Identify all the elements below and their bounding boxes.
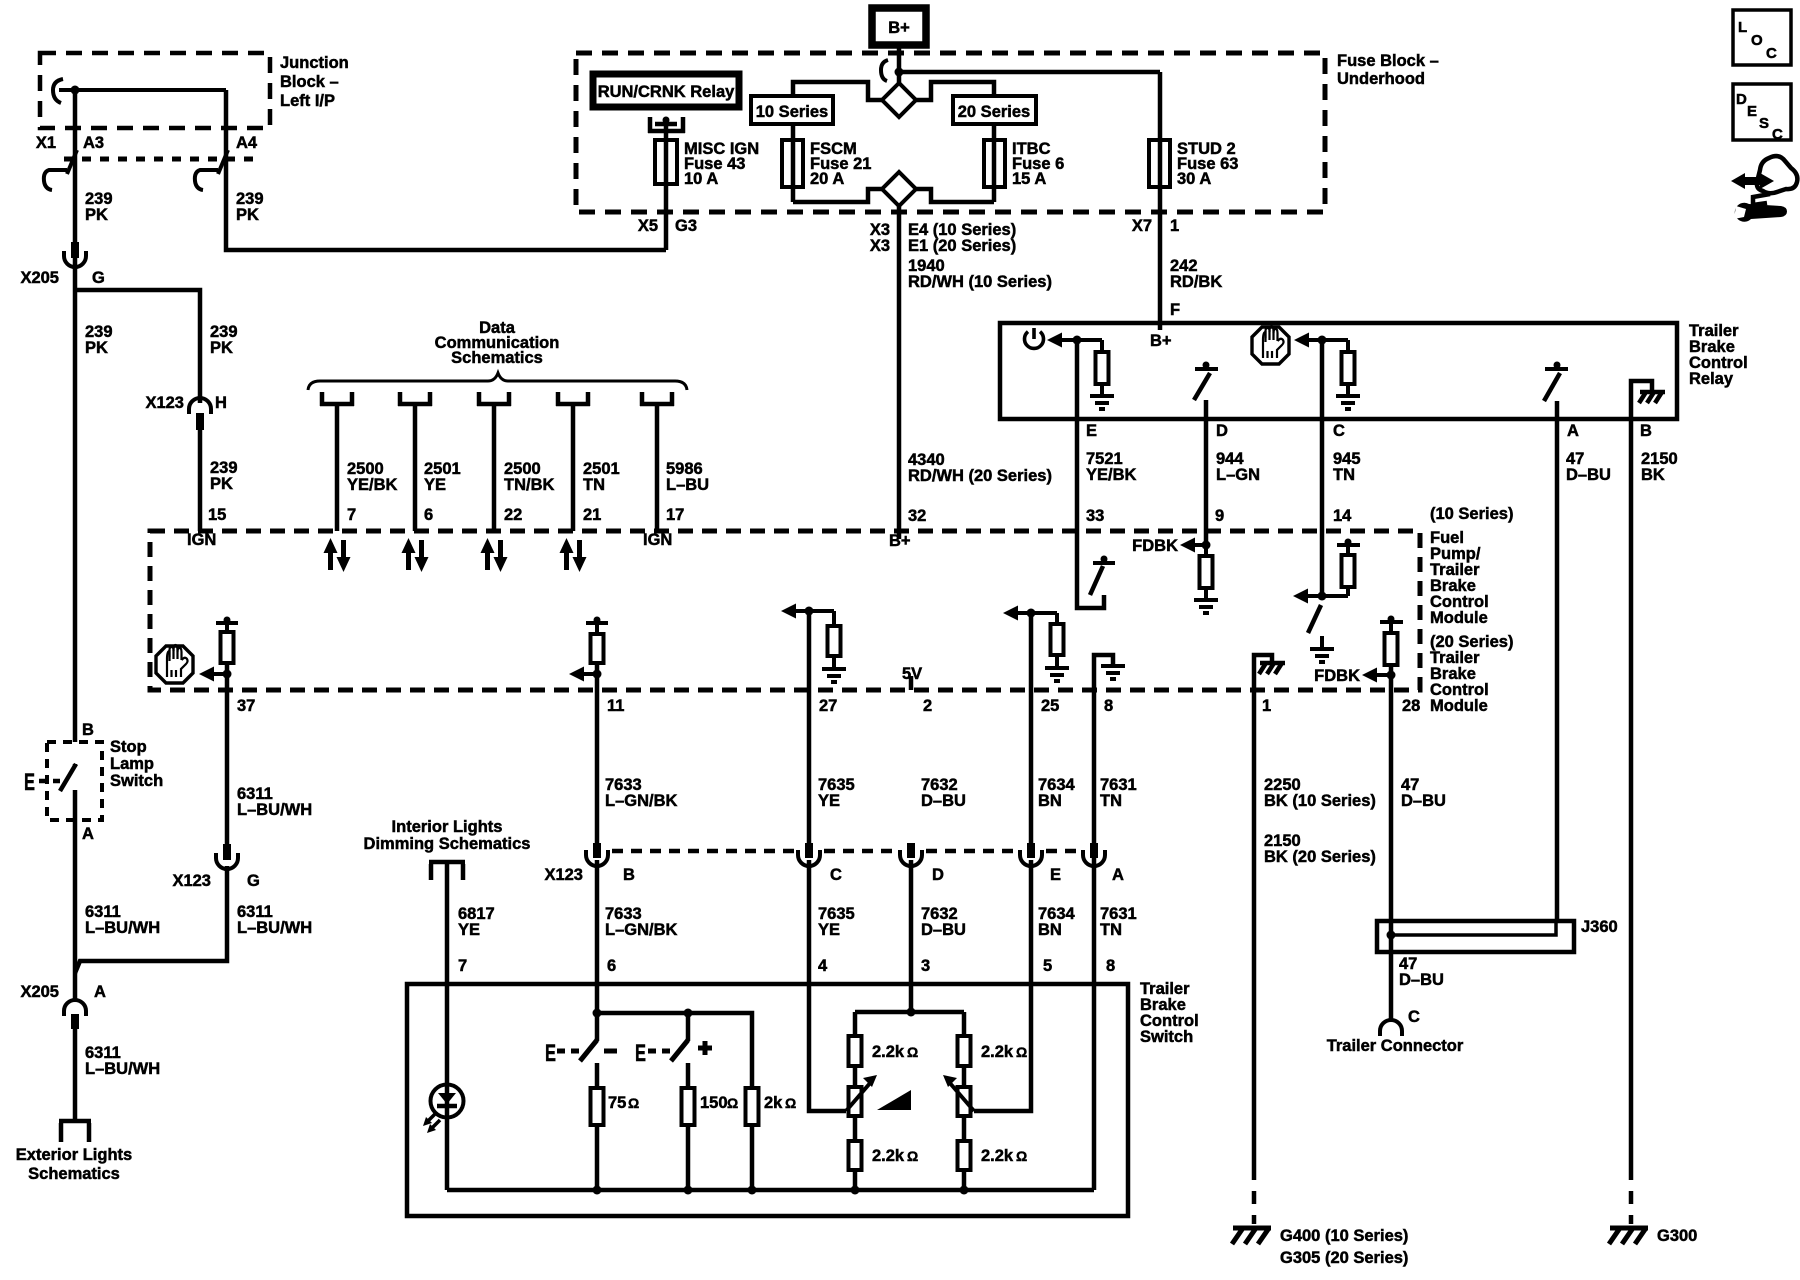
svg-text:C: C	[1766, 45, 1777, 62]
svg-text:PK: PK	[236, 206, 259, 224]
svg-text:Schematics: Schematics	[451, 349, 543, 367]
svg-text:D: D	[932, 866, 944, 884]
wire X123 H to module pin 15	[198, 430, 203, 531]
LOC box	[1733, 10, 1791, 65]
minus switch stub	[595, 1013, 600, 1041]
wire B+ to STUD2 fuse	[899, 70, 1160, 75]
connector X123 H pin	[196, 413, 204, 430]
svg-text:YE: YE	[818, 921, 840, 939]
arrow left (pin 11)	[569, 667, 584, 682]
wire X205 A down	[73, 1029, 78, 1121]
svg-text:10 Series: 10 Series	[756, 103, 828, 121]
connector X205 G pin	[71, 242, 79, 258]
svg-text:6: 6	[424, 506, 433, 524]
svg-text:FDBK: FDBK	[1314, 667, 1360, 685]
svg-text:B+: B+	[889, 532, 911, 550]
bottom bus	[447, 1188, 1094, 1193]
stop lamp switch blade	[60, 764, 76, 791]
svg-text:1: 1	[1262, 697, 1271, 715]
wire relay B down	[1629, 419, 1634, 1167]
node E dot	[1073, 336, 1082, 345]
svg-text:28: 28	[1402, 697, 1420, 715]
wire FSCM to lower diamond	[793, 189, 882, 202]
terminal hook below A3	[44, 150, 77, 190]
svg-text:E: E	[545, 1040, 556, 1067]
pin 1 internal chassis ground	[1254, 655, 1272, 690]
relay contact A	[1545, 367, 1568, 371]
svg-text:L: L	[1738, 19, 1747, 36]
right wiper arrow	[949, 1082, 974, 1111]
svg-text:2k: 2k	[764, 1094, 783, 1112]
LED circle	[431, 1085, 464, 1118]
wire relay C to module 14	[1320, 340, 1325, 596]
resistor to ground (E branch)	[1077, 338, 1102, 342]
node B+ junction dot	[895, 68, 904, 77]
svg-text:G: G	[247, 872, 260, 890]
svg-text:FDBK: FDBK	[1132, 537, 1178, 555]
svg-text:RD/WH (20 Series): RD/WH (20 Series)	[908, 467, 1052, 485]
svg-text:25: 25	[1041, 697, 1059, 715]
connector row dash B-C	[612, 849, 794, 854]
svg-text:(10 Series): (10 Series)	[1430, 505, 1513, 523]
stop lamp switch dashed box	[47, 742, 102, 820]
node A3 junction dot	[71, 86, 80, 95]
svg-text:Left I/P: Left I/P	[280, 92, 335, 110]
svg-text:G305 (20 Series): G305 (20 Series)	[1280, 1249, 1408, 1267]
dashed wire to G300	[1629, 1167, 1634, 1224]
wire pin 27 down	[807, 611, 812, 844]
splice pack J360	[1377, 921, 1574, 952]
connector row dash C-D	[824, 849, 896, 854]
wire interior lights to LED	[445, 862, 450, 1190]
wire from X205 G down	[73, 258, 78, 742]
svg-text:RD/WH (10 Series): RD/WH (10 Series)	[908, 273, 1052, 291]
svg-text:10 A: 10 A	[684, 170, 718, 188]
svg-text:X123: X123	[544, 866, 583, 884]
connector X123 G pin	[223, 844, 231, 860]
wrench icon	[1735, 203, 1787, 222]
wire J360 to trailer connector	[1389, 921, 1394, 1021]
wire pin 8 to bus	[1092, 854, 1097, 1190]
wire 20series to ITBC fuse	[992, 124, 997, 202]
svg-text:37: 37	[237, 697, 255, 715]
FSCM fuse 21	[782, 140, 803, 187]
node 11 dot	[593, 670, 602, 679]
connector X123 H dome	[189, 398, 211, 414]
junction block - left I/P dashed box	[40, 53, 270, 128]
svg-text:Ω: Ω	[628, 1095, 639, 1111]
svg-text:1: 1	[1170, 217, 1179, 235]
svg-text:2.2k: 2.2k	[872, 1043, 905, 1061]
svg-text:L–BU/WH: L–BU/WH	[237, 801, 312, 819]
svg-text:BK (20 Series): BK (20 Series)	[1264, 848, 1376, 866]
svg-text:A: A	[1567, 422, 1579, 440]
pin 25 arrow and resistor to ground	[1003, 606, 1018, 621]
connector X205 A dome	[64, 1000, 86, 1016]
svg-text:Module: Module	[1430, 697, 1488, 715]
svg-text:D–BU: D–BU	[1399, 971, 1444, 989]
RUN/CRNK relay box	[593, 74, 739, 107]
svg-text:Module: Module	[1430, 609, 1488, 627]
svg-text:3: 3	[921, 957, 930, 975]
pin 33 internal switch	[1077, 531, 1104, 608]
svg-text:PK: PK	[85, 339, 108, 357]
svg-text:Interior Lights: Interior Lights	[392, 818, 503, 836]
svg-text:8: 8	[1104, 697, 1113, 715]
connector X123 D	[907, 843, 915, 858]
svg-text:150: 150	[700, 1094, 728, 1112]
svg-text:BK: BK	[1641, 466, 1665, 484]
svg-text:E1 (20 Series): E1 (20 Series)	[908, 237, 1016, 255]
wire relay E to module 33	[1075, 340, 1080, 531]
fuse block underhood dashed box	[576, 53, 1325, 212]
svg-text:BK (10 Series): BK (10 Series)	[1264, 792, 1376, 810]
right divider chain	[962, 1012, 967, 1036]
wire diamond to 10-series box	[793, 82, 882, 100]
svg-text:C: C	[1408, 1008, 1420, 1026]
svg-text:7: 7	[347, 506, 356, 524]
svg-text:22: 22	[504, 506, 522, 524]
wire lower diamond down to module pin 32	[897, 206, 902, 539]
resistor 150 ohm	[682, 1088, 695, 1125]
svg-text:15: 15	[208, 506, 226, 524]
MISC IGN fuse 43	[655, 140, 677, 184]
svg-text:A: A	[82, 825, 94, 843]
svg-text:9: 9	[1215, 507, 1224, 525]
wire pin 8 down	[1092, 690, 1097, 844]
svg-text:X7: X7	[1132, 217, 1152, 235]
chassis ground (pin B internal)	[1631, 381, 1652, 419]
svg-text:17: 17	[666, 506, 684, 524]
svg-text:BN: BN	[1038, 792, 1062, 810]
wire to pin 21	[571, 404, 576, 531]
DESC box	[1733, 84, 1791, 140]
svg-text:X205: X205	[20, 983, 59, 1001]
svg-text:C: C	[1333, 422, 1345, 440]
svg-text:PK: PK	[85, 206, 108, 224]
ground G400/G305	[1232, 1228, 1271, 1244]
svg-text:YE/BK: YE/BK	[1086, 466, 1137, 484]
svg-text:TN: TN	[1100, 792, 1122, 810]
svg-text:5: 5	[1043, 957, 1052, 975]
svg-text:27: 27	[819, 697, 837, 715]
LED diode	[438, 1093, 456, 1104]
data arrows pin 21	[560, 538, 587, 572]
terminal hook at B+ feed	[881, 60, 888, 81]
svg-text:L–BU/WH: L–BU/WH	[237, 919, 312, 937]
svg-text:J360: J360	[1581, 918, 1618, 936]
connector row dash E-A	[1046, 849, 1079, 854]
wire to pin 6	[413, 404, 418, 531]
svg-text:D–BU: D–BU	[1566, 466, 1611, 484]
svg-text:75: 75	[608, 1094, 626, 1112]
off-page bracket pin 22	[477, 392, 511, 406]
svg-text:D–BU: D–BU	[1401, 792, 1446, 810]
divider rail	[855, 1010, 964, 1015]
svg-text:X123: X123	[145, 394, 184, 412]
resistor 75 ohm	[591, 1088, 604, 1125]
svg-text:D: D	[1736, 91, 1747, 108]
svg-text:S: S	[1759, 115, 1769, 132]
svg-text:L–BU/WH: L–BU/WH	[85, 919, 160, 937]
wire pin 4 to left wiper	[809, 860, 846, 1111]
svg-text:2.2k: 2.2k	[872, 1147, 905, 1165]
svg-text:E: E	[1747, 103, 1757, 120]
connector strip X1 dashed	[64, 157, 261, 162]
svg-text:20 A: 20 A	[810, 170, 844, 188]
wire 75 ohm to bus	[595, 1125, 600, 1190]
svg-text:C: C	[830, 866, 842, 884]
plus switch blade	[671, 1040, 688, 1061]
svg-text:PK: PK	[210, 475, 233, 493]
svg-text:E: E	[1050, 866, 1061, 884]
svg-text:Switch: Switch	[1140, 1028, 1193, 1046]
svg-text:YE: YE	[818, 792, 840, 810]
svg-text:X5: X5	[638, 217, 658, 235]
B+ power box	[872, 8, 926, 45]
splice diamond upper	[882, 83, 916, 117]
minus switch blade	[580, 1040, 597, 1061]
wire pin 6 into switch	[595, 860, 600, 1013]
wire 2k to bus	[750, 1125, 755, 1190]
off-page bracket interior lights	[429, 862, 465, 880]
svg-text:RUN/CRNK Relay: RUN/CRNK Relay	[598, 83, 735, 101]
svg-text:H: H	[215, 394, 227, 412]
data arrows pin 7	[324, 538, 351, 572]
svg-text:YE/BK: YE/BK	[347, 476, 398, 494]
svg-text:TN: TN	[1333, 466, 1355, 484]
wire relay A down to J360	[1555, 419, 1560, 921]
svg-text:32: 32	[908, 507, 926, 525]
svg-text:IGN: IGN	[643, 531, 672, 549]
bus junction dots	[593, 1186, 602, 1195]
svg-text:C: C	[1772, 126, 1783, 143]
wire diamond to 20-series box	[916, 82, 994, 100]
wire X123 G down to junction	[75, 866, 227, 973]
trailer connector C dome	[1380, 1020, 1402, 1036]
svg-text:Trailer Connector: Trailer Connector	[1327, 1037, 1464, 1055]
ground (E branch)	[1090, 396, 1114, 409]
connector X123 C	[805, 843, 813, 858]
svg-text:Fuse Block –: Fuse Block –	[1337, 52, 1439, 70]
minus sign	[604, 1049, 617, 1054]
vehicle navigation icon	[1757, 156, 1798, 193]
svg-text:G: G	[92, 269, 105, 287]
svg-text:L–GN/BK: L–GN/BK	[605, 921, 678, 939]
terminal hook A3 bus end	[53, 79, 63, 103]
svg-text:PK: PK	[210, 339, 233, 357]
wire branch to X123 H	[75, 290, 200, 403]
connector row dash D-E	[926, 849, 1016, 854]
svg-text:RD/BK: RD/BK	[1170, 273, 1222, 291]
svg-text:Ω: Ω	[907, 1148, 918, 1164]
svg-text:4: 4	[818, 957, 828, 975]
ground (pin 25 branch)	[1045, 668, 1069, 681]
wire pin 1 down	[1252, 690, 1257, 1167]
pin 27 arrow and resistor to ground	[781, 604, 796, 619]
svg-text:Schematics: Schematics	[28, 1165, 120, 1183]
wire pin 25 down	[1029, 613, 1034, 844]
svg-text:A3: A3	[83, 134, 104, 152]
svg-text:B+: B+	[888, 19, 910, 37]
pin 2 stub	[909, 676, 914, 690]
ramp triangle	[877, 1090, 911, 1110]
arrow to hand symbol	[1294, 333, 1309, 348]
svg-text:L–GN: L–GN	[1216, 466, 1260, 484]
hand-octagon symbol (relay)	[1252, 326, 1289, 364]
data arrows pin 6	[402, 538, 429, 572]
svg-text:Dimming Schematics: Dimming Schematics	[364, 835, 531, 853]
svg-text:Relay: Relay	[1689, 370, 1734, 388]
svg-text:BN: BN	[1038, 921, 1062, 939]
svg-text:Underhood: Underhood	[1337, 70, 1425, 88]
svg-text:L–BU/WH: L–BU/WH	[85, 1060, 160, 1078]
svg-text:A: A	[94, 983, 106, 1001]
wire minus switch to 75 ohm	[595, 1063, 600, 1088]
trailer brake control switch box	[407, 984, 1128, 1216]
svg-text:TN: TN	[583, 476, 605, 494]
dashed wire to G400	[1252, 1167, 1257, 1224]
wire plus switch to 150 ohm	[686, 1063, 691, 1088]
svg-text:7: 7	[458, 957, 467, 975]
wire bus A3-A4 inside junction block	[59, 88, 226, 92]
svg-text:D–BU: D–BU	[921, 792, 966, 810]
connector X205 G cup	[64, 251, 86, 267]
pin 28 internal resistor and FDBK	[1380, 620, 1403, 624]
wire pin 5 to right wiper	[974, 860, 1031, 1111]
connector X123 G cup	[216, 853, 238, 869]
relay output terminal bracket	[648, 117, 685, 133]
svg-text:E: E	[635, 1040, 646, 1067]
pin 8 internal ground	[1094, 655, 1113, 690]
svg-text:D: D	[1216, 422, 1228, 440]
svg-text:X123: X123	[172, 872, 211, 890]
splice diamond lower	[882, 172, 916, 206]
left divider chain	[853, 1012, 858, 1036]
svg-text:Ω: Ω	[1016, 1148, 1027, 1164]
svg-text:14: 14	[1333, 507, 1352, 525]
svg-text:YE: YE	[458, 921, 480, 939]
ground G300	[1609, 1228, 1648, 1244]
wire 10series to FSCM fuse	[791, 124, 796, 202]
svg-text:Lamp: Lamp	[110, 755, 154, 773]
wire 150 ohm to bus	[686, 1125, 691, 1190]
svg-text:X1: X1	[36, 134, 56, 152]
plus sign	[698, 1046, 712, 1051]
connector X123 A	[1090, 843, 1098, 858]
svg-text:E: E	[1086, 422, 1097, 440]
svg-text:6: 6	[607, 957, 616, 975]
resistor 2k	[746, 1088, 759, 1125]
svg-text:Stop: Stop	[110, 738, 147, 756]
data arrows pin 22	[481, 538, 508, 572]
off-page bracket pin 7	[320, 392, 354, 406]
svg-text:Ω: Ω	[907, 1044, 918, 1060]
svg-text:20 Series: 20 Series	[958, 103, 1030, 121]
svg-text:Exterior Lights: Exterior Lights	[16, 1146, 132, 1164]
wire A3 down	[73, 90, 78, 242]
20 Series box	[953, 96, 1036, 124]
wire stop lamp A down	[73, 764, 78, 766]
hand-octagon symbol (module)	[156, 645, 193, 683]
svg-text:D–BU: D–BU	[921, 921, 966, 939]
wire from B+ down	[897, 45, 902, 83]
svg-text:Ω: Ω	[727, 1095, 738, 1111]
svg-text:2: 2	[923, 697, 932, 715]
off-page bracket pin 6	[398, 392, 432, 406]
plus switch stub	[686, 1013, 691, 1041]
svg-text:Ω: Ω	[1016, 1044, 1027, 1060]
svg-text:2.2k: 2.2k	[981, 1147, 1014, 1165]
svg-text:A: A	[1112, 866, 1124, 884]
svg-text:G400 (10 Series): G400 (10 Series)	[1280, 1227, 1408, 1245]
svg-text:E: E	[24, 769, 35, 796]
svg-text:TN/BK: TN/BK	[504, 476, 554, 494]
rail minus/plus/2k	[597, 1013, 752, 1088]
STUD 2 fuse 63	[1149, 140, 1170, 187]
wire to pin 17	[655, 404, 660, 531]
svg-text:2.2k: 2.2k	[981, 1043, 1014, 1061]
svg-text:F: F	[1170, 301, 1180, 319]
svg-text:15 A: 15 A	[1012, 170, 1046, 188]
ground (pin 27 branch)	[822, 669, 846, 682]
off-page bracket pin 17	[640, 392, 674, 406]
svg-text:O: O	[1751, 32, 1763, 49]
left wiper arrow	[846, 1082, 871, 1111]
node rail dots	[593, 1009, 602, 1018]
svg-text:30 A: 30 A	[1177, 170, 1211, 188]
svg-text:33: 33	[1086, 507, 1104, 525]
pin 9 resistor to ground	[1204, 545, 1208, 556]
svg-text:Block –: Block –	[280, 73, 339, 91]
svg-text:L–GN/BK: L–GN/BK	[605, 792, 678, 810]
svg-text:X205: X205	[20, 269, 59, 287]
node C dot	[1318, 336, 1327, 345]
svg-text:G300: G300	[1657, 1227, 1697, 1245]
svg-text:B: B	[623, 866, 635, 884]
svg-text:L–BU: L–BU	[666, 476, 709, 494]
node 37 dot	[223, 670, 232, 679]
LED emission arrows	[426, 1113, 436, 1123]
off-page bracket pin 21	[556, 392, 590, 406]
ground (C branch)	[1336, 396, 1360, 409]
svg-text:G3: G3	[675, 217, 697, 235]
resistor to ground (C branch)	[1322, 338, 1348, 342]
wire lower diamond to ITBC	[916, 189, 994, 202]
wire pin 3 to divider rail	[909, 860, 914, 1012]
svg-text:11: 11	[607, 697, 624, 715]
svg-text:8: 8	[1106, 957, 1115, 975]
pin 37 internal resistor	[216, 621, 238, 625]
svg-text:X3: X3	[870, 237, 890, 255]
svg-text:IGN: IGN	[187, 531, 216, 549]
arrow to power symbol	[1047, 333, 1062, 348]
svg-text:YE: YE	[424, 476, 446, 494]
wire relay D to module 9	[1204, 419, 1209, 545]
trailer brake control relay box	[1000, 323, 1677, 419]
data comm brace	[308, 373, 687, 390]
connector X205 A pin	[71, 1014, 79, 1029]
svg-text:Junction: Junction	[280, 54, 349, 72]
svg-text:21: 21	[583, 506, 601, 524]
svg-text:Ω: Ω	[785, 1095, 796, 1111]
connector X123 B	[593, 843, 601, 858]
arrow to hand (pin 37)	[199, 667, 214, 682]
10 Series box	[751, 96, 833, 124]
wire A4 down and over to fuse X5	[226, 90, 666, 250]
terminal hook below A4	[195, 150, 228, 190]
relay contact D	[1195, 367, 1218, 371]
